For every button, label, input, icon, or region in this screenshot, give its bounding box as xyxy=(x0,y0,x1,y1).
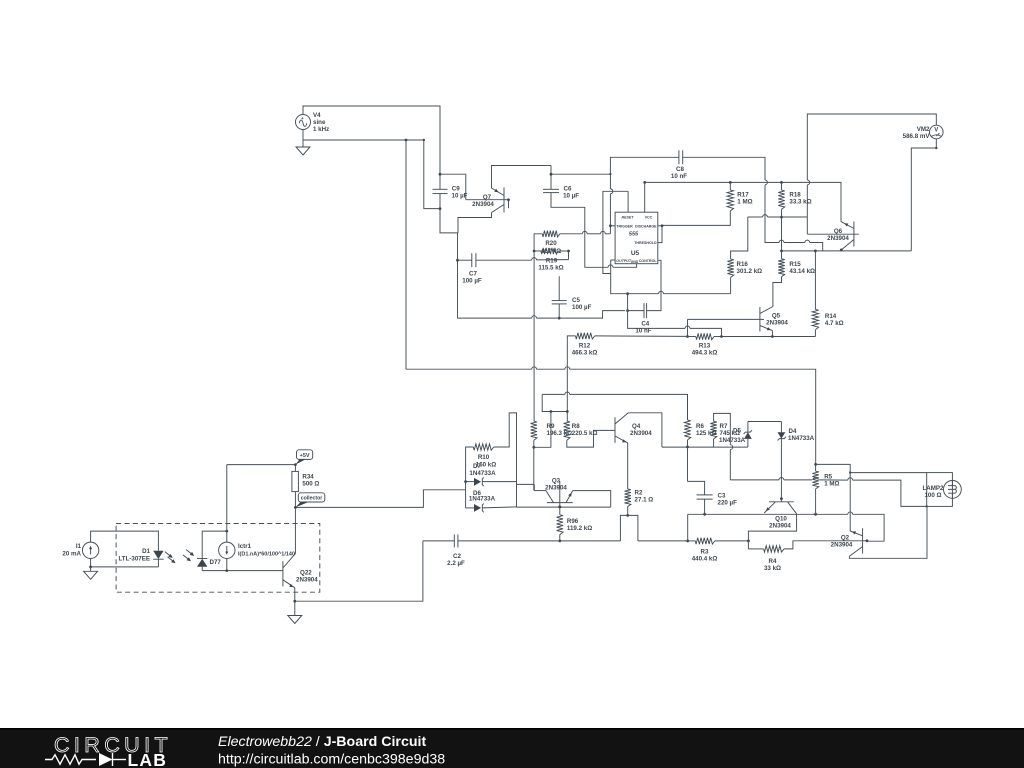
current source Ictr1 xyxy=(219,542,235,558)
svg-text:D4: D4 xyxy=(789,428,797,435)
label R34 value xyxy=(302,480,319,487)
svg-text:1N4733A: 1N4733A xyxy=(469,495,496,502)
lamp LAMP2 box xyxy=(927,473,953,507)
label R14 xyxy=(825,313,837,320)
op-amp U5 555 box xyxy=(615,212,658,264)
wire R6 top lead xyxy=(687,394,689,420)
wire Q6 base xyxy=(807,233,859,235)
svg-text:1N4733A: 1N4733A xyxy=(469,470,496,477)
resistor R34 xyxy=(292,471,299,491)
capacitor C9 xyxy=(433,189,448,193)
junction R13 right xyxy=(720,335,723,338)
wire R96 bottom lead xyxy=(559,535,561,541)
label Q4 xyxy=(632,423,641,430)
label Q6 xyxy=(834,228,843,235)
junction Q6 collector xyxy=(840,249,843,252)
label R4 xyxy=(769,558,777,565)
diode D5 xyxy=(744,430,752,439)
junction R2 bottom xyxy=(626,514,629,517)
svg-text:27.1 Ω: 27.1 Ω xyxy=(635,497,654,504)
label C7 xyxy=(469,271,477,278)
label U5 OUTPUT xyxy=(616,259,632,263)
svg-text:440.4 kΩ: 440.4 kΩ xyxy=(692,556,718,563)
label R7 xyxy=(720,423,728,430)
resistor R12 xyxy=(576,333,595,339)
wire Q7 top rail corner xyxy=(544,165,551,167)
current source I1 xyxy=(82,542,98,558)
wire Q3 base upper xyxy=(559,481,561,503)
label Q7 part xyxy=(472,201,494,208)
resistor R18 xyxy=(778,190,784,209)
svg-text:U5: U5 xyxy=(631,250,640,257)
svg-text:+5V: +5V xyxy=(300,453,310,459)
wire C5 bottom lead xyxy=(558,304,560,318)
svg-text:CONTROL: CONTROL xyxy=(639,259,658,263)
svg-text:R12: R12 xyxy=(579,343,591,350)
wire C7 to R19 output line xyxy=(476,258,569,261)
wire trigger column lower xyxy=(609,194,611,234)
wire Q7 emitter up xyxy=(492,166,545,189)
capacitor C7 xyxy=(472,253,476,267)
label R16 value xyxy=(737,268,763,275)
junction V4 bottom xyxy=(405,139,408,142)
wire mid rail b xyxy=(714,336,722,338)
svg-text:C7: C7 xyxy=(469,271,477,278)
wire I1 top xyxy=(91,531,159,551)
lamp LAMP2 bulb xyxy=(944,481,962,499)
wire Q3 base stub xyxy=(559,503,561,507)
wire top rail xyxy=(645,182,841,221)
wire C2 lead xyxy=(423,540,454,542)
svg-text:2N3904: 2N3904 xyxy=(769,523,791,530)
label D1 xyxy=(142,548,150,555)
capacitor C3 xyxy=(697,495,713,499)
junction I1 ground xyxy=(89,566,92,569)
wire R15 top lead xyxy=(781,251,783,259)
wire Q22 ground stem xyxy=(294,601,296,615)
wire U5 output stub xyxy=(611,259,615,261)
wire 447 line xyxy=(662,446,748,448)
junction lamp top T xyxy=(849,471,851,473)
wire Q22 emitter line xyxy=(295,541,423,601)
svg-text:R15: R15 xyxy=(789,261,801,268)
svg-text:33 kΩ: 33 kΩ xyxy=(764,565,781,572)
transistor Q22 xyxy=(283,554,296,588)
label C7 value xyxy=(462,278,482,285)
wire C4 branch xyxy=(627,294,629,311)
label C3 xyxy=(718,493,726,500)
junction R18 top xyxy=(780,181,783,184)
svg-text:2N3904: 2N3904 xyxy=(472,201,494,208)
diode D7 xyxy=(474,477,484,486)
label C2 xyxy=(453,553,461,560)
svg-text:10 µF: 10 µF xyxy=(563,193,579,200)
svg-text:R7: R7 xyxy=(720,423,728,430)
wire R6 bottom lead xyxy=(687,440,689,447)
label C6 xyxy=(564,186,572,193)
label D7 xyxy=(473,463,481,470)
label Q5 part xyxy=(766,320,788,327)
svg-text:1 kHz: 1 kHz xyxy=(313,126,329,133)
wire Ictr1 bottom xyxy=(226,559,228,571)
svg-text:C8: C8 xyxy=(676,166,684,173)
wire C6 top to trigger col xyxy=(551,173,610,175)
label R7 value xyxy=(720,430,740,437)
junction R18 bottom xyxy=(780,216,783,219)
wire Q3 emitter xyxy=(573,491,611,508)
wire bottom line c xyxy=(715,540,749,542)
banner xyxy=(0,728,1024,768)
svg-text:R4: R4 xyxy=(769,558,777,565)
wire R7 bottom lead xyxy=(713,439,715,447)
junction C9 bottom xyxy=(439,207,442,210)
transistor Q5 xyxy=(760,307,773,332)
junction lamp bottom xyxy=(926,505,928,507)
wire GND line right xyxy=(613,264,637,268)
wire C9 bottom to C7 xyxy=(440,209,458,261)
label C2 value xyxy=(447,560,465,567)
label collector xyxy=(301,496,323,502)
wire R2 detour xyxy=(620,515,638,541)
wire discharge to threshold xyxy=(658,226,662,243)
svg-text:R13: R13 xyxy=(699,343,711,350)
label Q22 part xyxy=(296,577,318,584)
wire R15 bottom to Q5 collector xyxy=(773,277,782,307)
wire R20 left lead xyxy=(534,234,542,251)
wire R5 top right xyxy=(816,464,851,472)
wire 394 left leg xyxy=(542,394,567,411)
resistor R2 xyxy=(625,489,631,507)
wire Q3 collector leg xyxy=(517,483,535,485)
label D4 xyxy=(789,428,797,435)
svg-text:LAB: LAB xyxy=(128,750,168,768)
wire VM2 right column xyxy=(911,139,936,251)
label R2 xyxy=(635,490,643,497)
wire Q2 collector col xyxy=(849,473,851,531)
label R19 xyxy=(546,257,558,264)
wire C9 top to Q7 base xyxy=(440,174,466,200)
wire C9 bottom xyxy=(439,194,441,209)
svg-text:301.2 kΩ: 301.2 kΩ xyxy=(737,268,763,275)
wire R96 top lead xyxy=(559,507,561,515)
svg-text:TRIGGER: TRIGGER xyxy=(616,224,633,228)
wire Q22 base xyxy=(227,570,283,572)
svg-text:R5: R5 xyxy=(824,474,832,481)
label R96 xyxy=(567,518,579,525)
label I1 xyxy=(76,543,82,550)
junction V4 bottom b xyxy=(423,139,425,141)
svg-text:R8: R8 xyxy=(572,423,580,430)
svg-text:I1: I1 xyxy=(76,543,82,550)
flag collector xyxy=(295,493,324,508)
label R15 value xyxy=(789,268,815,275)
wire +5V line xyxy=(227,464,296,466)
wire D5-D4 link xyxy=(748,421,782,423)
resistor R19 xyxy=(541,248,559,254)
svg-text:V4: V4 xyxy=(313,112,321,119)
capacitor C8 xyxy=(679,150,683,164)
wire I1 ground stem xyxy=(90,567,92,571)
junction Q5 emitter xyxy=(771,335,774,338)
wire R19 column xyxy=(533,251,535,421)
label C3 value xyxy=(718,500,738,507)
svg-text:100 µF: 100 µF xyxy=(462,278,482,285)
ground Q22 xyxy=(288,616,302,624)
junction R17 top xyxy=(729,181,732,184)
label U5 GND xyxy=(631,260,639,264)
svg-text:Q5: Q5 xyxy=(772,313,781,320)
wire R4 right to Q2 base xyxy=(784,541,863,549)
flag +5V xyxy=(295,450,312,465)
label R19 value xyxy=(538,264,563,271)
junction C5 bottom xyxy=(558,317,561,320)
svg-text:2N3904: 2N3904 xyxy=(766,320,788,327)
label LAMP2 xyxy=(923,485,945,492)
junction Q3 base xyxy=(558,506,561,509)
label R20 value xyxy=(541,248,561,255)
label D77 xyxy=(210,559,222,566)
wire R20 right lead xyxy=(560,231,611,233)
label R15 xyxy=(789,261,801,268)
wire D4 top lead xyxy=(780,422,782,433)
label R2 value xyxy=(635,497,654,504)
junction vcc rail xyxy=(643,181,646,184)
wire D7 left lead xyxy=(466,481,474,483)
wire R7 loop lower xyxy=(729,450,731,480)
svg-text:10 µF: 10 µF xyxy=(452,193,468,200)
wire Q6 base drop b xyxy=(806,217,808,234)
wire 394 line xyxy=(542,392,687,420)
label R13 value xyxy=(692,350,718,357)
wire D5 top lead xyxy=(747,422,749,433)
wire collector line xyxy=(517,506,611,508)
junction C9 top branch xyxy=(439,173,442,176)
wire I1 bottom xyxy=(90,559,92,567)
svg-text:33.3 kΩ: 33.3 kΩ xyxy=(789,199,811,206)
svg-text:V: V xyxy=(934,128,938,134)
label U5 THRESHOLD xyxy=(634,241,657,245)
label U5 name xyxy=(631,250,640,257)
label R96 value xyxy=(567,525,592,532)
svg-text:D7: D7 xyxy=(473,463,481,470)
label Ictr1 expr xyxy=(238,552,295,558)
wire Q4 collector xyxy=(628,413,662,445)
svg-text:LTL-307EE: LTL-307EE xyxy=(118,556,150,563)
svg-text:D5: D5 xyxy=(733,428,741,435)
wire R7 top loop xyxy=(714,413,731,444)
label V4 1kHz xyxy=(313,126,329,133)
junction R19 right xyxy=(567,250,570,253)
hop C8 column over rail xyxy=(765,180,767,185)
junction VM2 bottom corner xyxy=(935,147,937,149)
hop 242 line over R18 column xyxy=(779,240,784,242)
wire 242 line mid xyxy=(784,242,805,244)
wire R16 bottom lead xyxy=(730,277,732,293)
label R14 value xyxy=(825,320,844,327)
wire R9 bottom lead xyxy=(533,440,535,447)
svg-text:100 Ω: 100 Ω xyxy=(924,492,941,499)
junction R13 left xyxy=(686,335,689,338)
wire R14 bottom lead xyxy=(814,330,816,337)
wire R10 right loop xyxy=(494,413,517,507)
wire Q3 collector xyxy=(534,490,546,492)
junction Q7 base pad xyxy=(507,198,510,208)
svg-text:466.3 kΩ: 466.3 kΩ xyxy=(572,350,598,357)
hop R7 loop over 447 xyxy=(730,445,732,450)
junction trigger column top xyxy=(609,173,611,175)
svg-text:D77: D77 xyxy=(210,559,222,566)
svg-text:GND: GND xyxy=(631,260,639,264)
wire Q7 base xyxy=(466,199,509,201)
label R17 value xyxy=(737,199,752,206)
wire C5 top stub xyxy=(558,276,560,300)
wire VM2 top line xyxy=(807,114,936,180)
resistor R5 xyxy=(812,471,818,489)
label Q7 xyxy=(483,194,492,201)
label R13 xyxy=(699,343,711,350)
label R18 xyxy=(789,192,801,199)
junction output-C4 branch xyxy=(626,292,629,295)
junction Ictr1 top xyxy=(225,530,228,533)
capacitor C2 xyxy=(454,534,458,547)
label D6 part xyxy=(469,495,496,502)
wire discharge line to R17 xyxy=(662,211,730,225)
junction Q10 collector xyxy=(780,497,783,500)
label C4 xyxy=(641,321,649,328)
wire U5 reset stub xyxy=(627,191,629,212)
svg-text:RESET: RESET xyxy=(622,215,635,219)
svg-text:DISCHARGE: DISCHARGE xyxy=(635,224,657,228)
label R3 xyxy=(701,549,709,556)
resistor R20 xyxy=(542,231,560,237)
svg-text:+: + xyxy=(301,116,304,121)
svg-text:10 nF: 10 nF xyxy=(671,173,687,180)
label R9 value xyxy=(547,430,573,437)
resistor R15 xyxy=(778,259,784,277)
junction R9 bottom xyxy=(532,446,535,449)
wire D77 bottom xyxy=(201,567,203,571)
junction C3 bottom left xyxy=(686,540,689,543)
label U5 RESET xyxy=(622,215,635,219)
wire R18 top lead xyxy=(781,182,783,190)
wire trigger stub xyxy=(610,225,615,227)
svg-text:115.5 kΩ: 115.5 kΩ xyxy=(538,264,563,271)
wire Q10 collector stub xyxy=(780,499,782,502)
label +5V xyxy=(300,453,310,459)
svg-text:C4: C4 xyxy=(641,321,649,328)
wire Q5 base xyxy=(688,318,765,320)
wire D6 right lead xyxy=(482,507,517,508)
hop trigger column over reset line xyxy=(610,189,612,194)
voltage source V4 xyxy=(296,115,311,130)
resistor R3 xyxy=(695,538,715,544)
diode D4 xyxy=(778,432,786,440)
label C5 xyxy=(572,297,580,304)
resistor R16 xyxy=(727,259,733,277)
svg-text:Ictr1: Ictr1 xyxy=(238,543,252,550)
wire C8 column mid xyxy=(765,185,779,243)
svg-text:R6: R6 xyxy=(696,423,704,430)
svg-text:119.2 kΩ: 119.2 kΩ xyxy=(567,525,592,532)
svg-text:VCC: VCC xyxy=(645,215,653,219)
junction R19 left xyxy=(533,250,536,253)
wire V4 ground stem xyxy=(302,140,304,147)
junction D7 left xyxy=(464,480,467,483)
label R20 xyxy=(545,240,557,247)
wire output line xyxy=(625,291,730,293)
wire C4 left lead xyxy=(628,310,644,312)
label R8 xyxy=(572,423,580,430)
svg-text:sine: sine xyxy=(313,119,326,126)
svg-text:4.7 kΩ: 4.7 kΩ xyxy=(825,320,844,327)
label R16 xyxy=(737,261,749,268)
label C8 value xyxy=(671,173,687,180)
wire D7 right lead xyxy=(482,481,517,483)
wire R14 top lead xyxy=(814,251,816,310)
wire lamp line xyxy=(730,477,926,506)
junction R4 left xyxy=(747,540,750,543)
wire U5 vcc stub xyxy=(644,182,646,212)
dashed box optocoupler xyxy=(116,524,320,593)
label V4 sine xyxy=(313,119,326,126)
wire R18-R15 column xyxy=(781,217,783,251)
svg-text:586.8 mV: 586.8 mV xyxy=(903,133,931,140)
svg-text:C3: C3 xyxy=(718,493,726,500)
label Q10 part xyxy=(769,523,791,530)
wire 242 line to collector node xyxy=(810,243,823,251)
label R7 1N4733A xyxy=(719,437,746,444)
svg-text:R14: R14 xyxy=(825,313,837,320)
wire C4 right lead xyxy=(647,260,661,310)
junction C3 bottom xyxy=(703,513,706,516)
svg-text:R2: R2 xyxy=(635,490,643,497)
voltmeter VM2 xyxy=(930,125,944,139)
svg-text:R20: R20 xyxy=(545,240,557,247)
svg-text:20 mA: 20 mA xyxy=(62,551,81,558)
svg-text:R17: R17 xyxy=(737,192,749,199)
wire C7 lead left xyxy=(458,259,472,261)
label R10 xyxy=(478,454,490,461)
junction U5 trigger xyxy=(609,224,612,227)
label LAMP2 value xyxy=(924,492,941,499)
label C5 value xyxy=(572,304,592,311)
wire Q7 collector down xyxy=(458,213,492,233)
svg-text:R16: R16 xyxy=(737,261,749,268)
wire R16 top link xyxy=(731,217,748,259)
svg-text:R10: R10 xyxy=(478,454,490,461)
wire R2 bottom lead xyxy=(627,507,629,516)
wire lamp top line xyxy=(850,472,927,474)
svg-text:Electrowebb22 / J-Board Circui: Electrowebb22 / J-Board Circuit xyxy=(218,734,426,750)
label R5 value xyxy=(824,481,839,488)
svg-text:C9: C9 xyxy=(452,186,460,193)
label VM2 xyxy=(917,126,930,133)
junction C7 left xyxy=(456,259,459,262)
wire R19 right lead xyxy=(559,250,569,252)
svg-text:43.14 kΩ: 43.14 kΩ xyxy=(789,268,815,275)
wire C9 bottom to left column xyxy=(424,140,440,209)
junction R6 bottom xyxy=(686,446,689,449)
wire R8 bottom to Q4 base xyxy=(567,430,615,447)
wire trigger node up to C8 line xyxy=(610,157,679,173)
svg-text:C2: C2 xyxy=(453,553,461,560)
wire D4 column xyxy=(780,439,782,499)
wire Q2 base overhang xyxy=(863,540,867,542)
label Q22 xyxy=(300,570,312,577)
label R10 value xyxy=(476,461,496,468)
label U5 555 xyxy=(629,232,639,238)
ground V4 xyxy=(296,147,310,155)
